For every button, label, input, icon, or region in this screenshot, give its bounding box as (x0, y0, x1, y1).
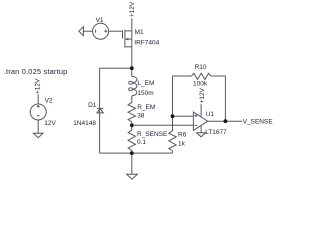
svg-text:.tran 0.025 startup: .tran 0.025 startup (4, 67, 68, 76)
svg-text:V1: V1 (96, 17, 104, 24)
svg-text:100k: 100k (193, 81, 208, 88)
svg-text:R10: R10 (195, 64, 207, 71)
svg-text:12V: 12V (44, 120, 56, 127)
svg-text:U1: U1 (206, 111, 215, 118)
svg-text:R_EM: R_EM (137, 104, 155, 111)
svg-text:L_EM: L_EM (137, 80, 154, 87)
svg-text:M1: M1 (135, 29, 144, 36)
svg-text:+12V: +12V (199, 87, 206, 103)
svg-text:LT1677: LT1677 (205, 129, 227, 136)
svg-text:D1: D1 (88, 102, 97, 109)
svg-text:1N4148: 1N4148 (73, 120, 96, 127)
svg-text:150m: 150m (137, 90, 153, 97)
svg-text:1k: 1k (178, 141, 186, 148)
svg-text:R6: R6 (178, 132, 187, 139)
svg-text:IRF7404: IRF7404 (134, 40, 159, 47)
svg-text:+12V: +12V (129, 1, 136, 17)
svg-text:38: 38 (137, 113, 145, 120)
svg-text:+12V: +12V (35, 78, 42, 94)
svg-text:V2: V2 (45, 98, 53, 105)
svg-text:V_SENSE: V_SENSE (243, 119, 274, 126)
svg-text:0.1: 0.1 (137, 139, 146, 146)
svg-text:R_SENSE: R_SENSE (137, 131, 168, 138)
